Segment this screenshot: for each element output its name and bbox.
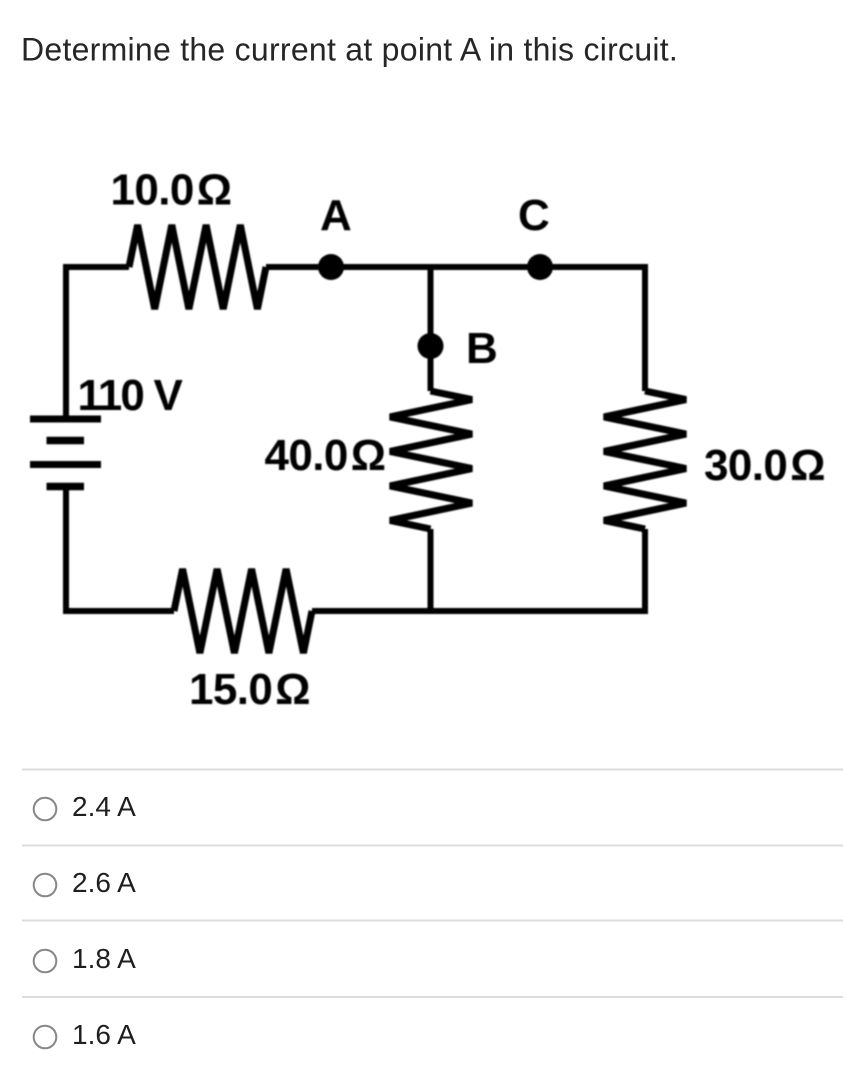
svg-text:C: C (518, 191, 550, 240)
svg-text:1.8 A: 1.8 A (72, 943, 136, 974)
svg-text:15.0 Ω: 15.0 Ω (189, 665, 310, 714)
answer option dividers (22, 770, 843, 998)
battery V1 plate 4 (short, negative) (47, 483, 85, 491)
node C junction dot (527, 254, 553, 280)
svg-text:2.6 A: 2.6 A (72, 867, 136, 898)
svg-text:110 V: 110 V (78, 371, 184, 420)
node A junction dot (318, 254, 344, 280)
resistor R2 40.0 ohm (middle, vertical zigzag) (390, 391, 472, 529)
wire: bottom-left corner (battery negative down to bottom rail, to R4) (66, 490, 174, 611)
svg-text:Determine the current at point: Determine the current at point A in this… (21, 32, 678, 68)
wire: top-left corner (left rail up to top rail, into R1) (66, 267, 129, 416)
svg-text:1.6 A: 1.6 A (72, 1019, 136, 1050)
battery V1 plate 2 (short) (47, 437, 85, 445)
resistor R4 15.0 ohm (bottom, horizontal zigzag) (174, 569, 312, 653)
resistor R1 10.0 ohm (top, horizontal zigzag) (129, 225, 266, 309)
battery V1 plate 1 (long, positive) (30, 416, 101, 423)
answer radio buttons (34, 798, 57, 1049)
svg-text:40.0 Ω: 40.0 Ω (265, 431, 386, 480)
svg-text:30.0 Ω: 30.0 Ω (704, 441, 825, 490)
svg-text:B: B (466, 324, 498, 373)
node B junction dot (418, 333, 444, 359)
wire: bottom-right corner (R3 down to bottom rail) (312, 529, 645, 611)
wire: top rail from R1 through node A and node C to top-right corner, down to R3 (266, 267, 645, 391)
battery V1 plate 3 (long) (30, 461, 101, 468)
wire: middle branch from R2 down to bottom rail (428, 529, 434, 611)
answer option texts (72, 791, 136, 1050)
resistor R3 30.0 ohm (right, vertical zigzag) (604, 391, 686, 529)
svg-text:A: A (320, 191, 352, 240)
svg-text:10.0 Ω: 10.0 Ω (111, 166, 232, 215)
wire: middle branch from top rail down to R2 (through node B) (428, 267, 434, 391)
svg-text:2.4 A: 2.4 A (72, 791, 136, 822)
